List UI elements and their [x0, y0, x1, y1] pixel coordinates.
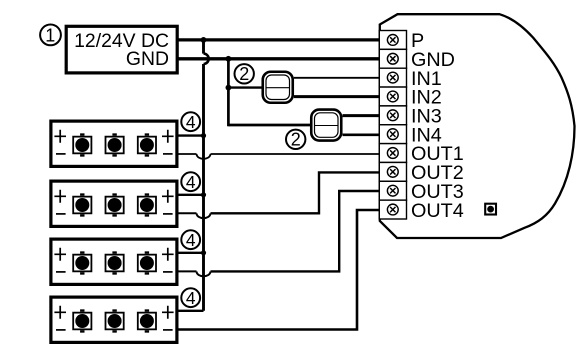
svg-text:4: 4: [186, 230, 196, 250]
svg-text:GND: GND: [126, 48, 169, 70]
svg-text:4: 4: [186, 112, 196, 132]
svg-text:4: 4: [186, 172, 196, 192]
svg-text:1: 1: [45, 25, 55, 45]
svg-text:4: 4: [186, 288, 196, 308]
svg-text:OUT4: OUT4: [411, 200, 464, 222]
svg-text:2: 2: [291, 130, 301, 150]
svg-text:2: 2: [239, 64, 249, 84]
